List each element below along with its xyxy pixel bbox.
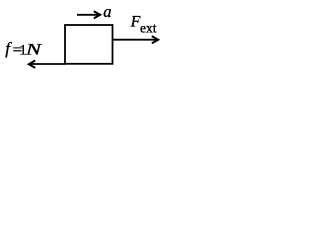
friction arrow f	[29, 61, 65, 68]
acceleration arrow	[77, 11, 100, 18]
svg-text:f: f	[5, 39, 12, 58]
svg-text:a: a	[103, 2, 111, 21]
svg-text:N: N	[25, 42, 44, 59]
block (box)	[65, 25, 113, 64]
applied force arrow F_ext	[112, 36, 158, 43]
svg-text:F: F	[130, 13, 141, 30]
svg-text:ext: ext	[140, 21, 157, 36]
